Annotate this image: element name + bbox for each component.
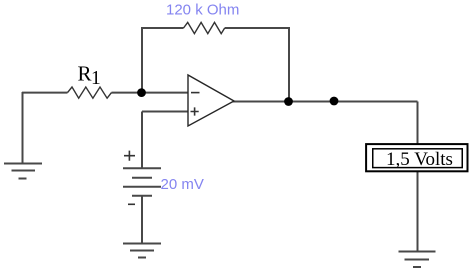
svg-text:1,5 Volts: 1,5 Volts: [386, 149, 453, 170]
svg-text:R: R: [78, 62, 92, 86]
svg-text:120 k Ohm: 120 k Ohm: [166, 2, 239, 19]
svg-text:1: 1: [91, 68, 101, 89]
svg-text:20 mV: 20 mV: [161, 176, 204, 193]
